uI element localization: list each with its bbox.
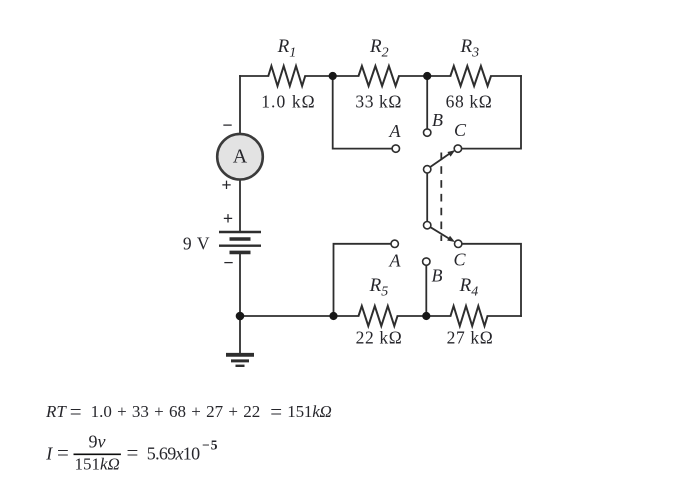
svg-text:R3: R3: [460, 36, 480, 61]
svg-text:151kΩ: 151kΩ: [287, 402, 331, 421]
svg-text:R5: R5: [369, 275, 389, 300]
svg-text:+: +: [221, 175, 231, 195]
svg-text:−5: −5: [202, 437, 218, 452]
svg-text:27 kΩ: 27 kΩ: [447, 328, 494, 348]
svg-text:1.0 kΩ: 1.0 kΩ: [261, 91, 316, 111]
svg-text:R1: R1: [277, 36, 297, 61]
svg-text:B: B: [432, 110, 443, 130]
svg-text:I: I: [45, 443, 53, 463]
svg-text:5.69x10: 5.69x10: [147, 443, 200, 463]
svg-text:=: =: [127, 440, 139, 464]
svg-text:R4: R4: [459, 275, 479, 300]
svg-text:=: =: [70, 399, 82, 423]
svg-text:C: C: [453, 250, 466, 270]
svg-text:68 kΩ: 68 kΩ: [446, 91, 493, 111]
svg-text:B: B: [432, 266, 443, 286]
svg-text:A: A: [389, 121, 402, 141]
svg-text:−: −: [223, 253, 233, 273]
svg-text:A: A: [389, 251, 402, 271]
svg-text:A: A: [233, 146, 248, 168]
svg-text:1.0 + 33 + 68 + 27 + 22: 1.0 + 33 + 68 + 27 + 22: [91, 402, 261, 421]
svg-text:33 kΩ: 33 kΩ: [355, 91, 402, 111]
svg-text:9v: 9v: [89, 432, 106, 452]
svg-text:+: +: [223, 209, 233, 229]
svg-text:=: =: [270, 399, 282, 423]
svg-text:9 V: 9 V: [183, 234, 210, 254]
svg-text:−: −: [222, 115, 232, 135]
svg-text:R2: R2: [369, 36, 389, 61]
svg-text:=: =: [57, 440, 69, 464]
svg-text:RT: RT: [45, 402, 67, 421]
svg-text:22 kΩ: 22 kΩ: [356, 328, 403, 348]
svg-text:151kΩ: 151kΩ: [75, 454, 120, 473]
svg-text:C: C: [454, 120, 467, 140]
